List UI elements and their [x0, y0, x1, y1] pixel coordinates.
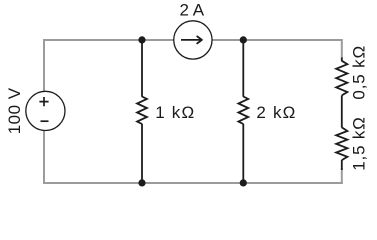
resistor R4 zigzag [336, 127, 347, 160]
svg-text:100 V: 100 V [5, 87, 24, 134]
node dot bottom branch1 [138, 179, 145, 186]
wire left upper [43, 39, 45, 91]
wire left lower [43, 131, 45, 185]
voltage source minus sign [41, 120, 49, 122]
svg-text:1 kΩ: 1 kΩ [155, 103, 195, 122]
resistor R3 lead top [341, 58, 343, 62]
current source I1 circle [174, 21, 212, 59]
voltage source V1 circle [26, 91, 65, 130]
voltage source plus sign [39, 97, 48, 106]
current source arrow [181, 39, 201, 41]
node dot bottom branch2 [240, 179, 247, 186]
resistor R1 lead top [141, 40, 143, 97]
resistor R4 lead bottom [341, 160, 343, 170]
svg-text:2 kΩ: 2 kΩ [256, 103, 296, 122]
wire bottom [43, 182, 343, 184]
svg-text:1,5 kΩ: 1,5 kΩ [349, 116, 368, 170]
wire right lower [341, 168, 343, 184]
resistor R2 lead bottom [242, 124, 244, 183]
resistor R1 zigzag [137, 97, 147, 125]
svg-text:0,5 kΩ: 0,5 kΩ [349, 45, 368, 100]
resistor R3 to R4 lead [341, 95, 343, 127]
node dot top branch2 [240, 36, 247, 43]
wire top-right segment [212, 39, 342, 41]
svg-text:2 A: 2 A [180, 1, 205, 20]
resistor R2 zigzag [238, 97, 248, 125]
resistor R2 lead top [242, 40, 244, 97]
wire top-left segment [44, 39, 174, 41]
resistor R3 zigzag [336, 61, 347, 96]
wire right upper [341, 39, 343, 59]
node dot top branch1 [138, 36, 145, 43]
resistor R1 lead bottom [141, 124, 143, 183]
